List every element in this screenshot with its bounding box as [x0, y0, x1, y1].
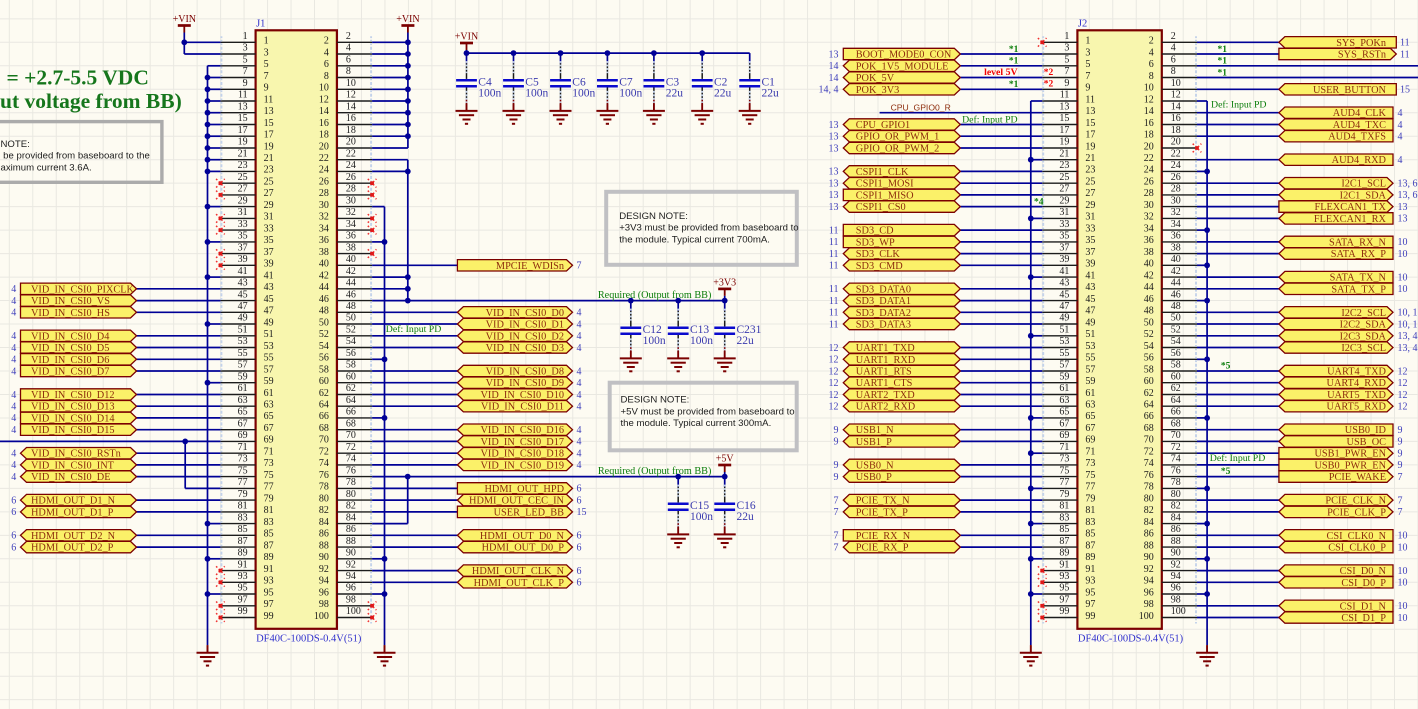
junction GND bus / J2 pin 90 — [1204, 556, 1210, 562]
svg-text:HDMI_OUT_D2_P: HDMI_OUT_D2_P — [31, 543, 114, 554]
J2 pin 33 — [1042, 219, 1095, 236]
J1 pin 48 — [319, 301, 372, 318]
J1 pin 84 — [319, 512, 372, 529]
J2 pin 39 — [1042, 254, 1095, 271]
svg-text:17: 17 — [238, 125, 248, 136]
junction +VIN bus / J1 pin 8 — [405, 75, 411, 81]
port CSPI1_CS0 (J2 pin 29) — [829, 201, 961, 213]
svg-text:7: 7 — [834, 495, 839, 506]
port UART4_RXD (J2 pin 60) — [1279, 377, 1408, 389]
J2 pin 80 — [1144, 489, 1197, 506]
svg-text:35: 35 — [1059, 231, 1069, 242]
J2 pin 16 — [1144, 113, 1197, 130]
svg-text:94: 94 — [319, 576, 329, 587]
J2 pin 99 — [1042, 606, 1095, 623]
svg-text:32: 32 — [319, 212, 329, 223]
port UART5_TXD (J2 pin 62) — [1279, 389, 1408, 401]
wire +3V3 bus to J1 pin 24 — [372, 170, 408, 172]
svg-text:CSI_D0_N: CSI_D0_N — [1340, 566, 1387, 577]
wire GND bus to J2 pin 83 — [1031, 523, 1042, 525]
svg-text:CSPI1_CS0: CSPI1_CS0 — [856, 202, 906, 213]
svg-text:SD3_DATA1: SD3_DATA1 — [856, 296, 911, 307]
svg-text:be provided from baseboard to: be provided from baseboard to the — [1, 151, 150, 162]
J2 pin 97 — [1042, 595, 1095, 612]
wire port SD3_DATA3 to J2 pin 49 — [960, 323, 1042, 325]
wire GND bus to J2 pin 46 — [1197, 300, 1207, 302]
wire J1 pin 58 to port VID_IN_CSI0_D8 — [372, 370, 457, 372]
svg-text:9: 9 — [1398, 449, 1403, 460]
svg-text:9: 9 — [1064, 78, 1069, 89]
port VID_IN_CSI0_D5 (J1 pin 53) — [11, 342, 136, 354]
svg-text:76: 76 — [346, 465, 356, 476]
J1 pin 66 — [319, 407, 372, 424]
wire GND bus to J2 pin 84 — [1197, 523, 1207, 525]
svg-text:VID_IN_CSI0_INT: VID_IN_CSI0_INT — [31, 460, 115, 471]
capacitor C6 100n — [550, 53, 595, 111]
wire J1 pin 48 to port VID_IN_CSI0_D0 — [372, 311, 457, 313]
svg-text:36: 36 — [1144, 235, 1154, 246]
svg-text:45: 45 — [238, 289, 248, 300]
svg-text:98: 98 — [319, 599, 329, 610]
junction +VIN rail / C4 — [464, 50, 470, 56]
svg-text:5: 5 — [243, 55, 248, 66]
svg-text:10, 11: 10, 11 — [1398, 308, 1418, 319]
no-connect X at J1 pin 38 — [368, 249, 377, 258]
svg-text:55: 55 — [264, 353, 274, 364]
svg-text:86: 86 — [346, 524, 356, 535]
svg-text:97: 97 — [264, 599, 274, 610]
svg-text:58: 58 — [319, 364, 329, 375]
svg-text:77: 77 — [238, 477, 248, 488]
svg-text:36: 36 — [1171, 231, 1181, 242]
svg-text:14: 14 — [829, 73, 839, 84]
svg-text:PCIE_TX_P: PCIE_TX_P — [856, 507, 908, 518]
J1 pin 88 — [319, 536, 372, 553]
svg-text:42: 42 — [319, 270, 329, 281]
port UART1_RXD (J2 pin 55) — [829, 354, 961, 366]
svg-text:72: 72 — [319, 447, 329, 458]
svg-text:98: 98 — [1144, 599, 1154, 610]
wire +5V branch to J1 pin 84 — [372, 523, 408, 525]
svg-text:83: 83 — [1085, 517, 1095, 528]
no-connect X at J1 pin 39 — [216, 261, 225, 270]
svg-text:6: 6 — [324, 59, 329, 70]
svg-text:UART2_RXD: UART2_RXD — [856, 402, 916, 413]
port SATA_TX_N (J2 pin 42) — [1279, 271, 1408, 283]
wire J1 pin 92 to port HDMI_OUT_CLK_N — [372, 570, 457, 572]
junction GND bus / J1 pin 17 — [205, 133, 211, 139]
svg-text:10: 10 — [1398, 578, 1408, 589]
J2 pin 76 — [1144, 465, 1197, 482]
wire port PCIE_RX_N to J2 pin 85 — [960, 534, 1042, 536]
svg-text:26: 26 — [1144, 177, 1154, 188]
junction GND bus / J1 pin 9 — [205, 86, 211, 92]
svg-text:71: 71 — [264, 447, 274, 458]
junction GND bus / J2 pin 66 — [1204, 415, 1210, 421]
svg-text:20: 20 — [346, 137, 356, 148]
svg-text:4: 4 — [577, 319, 582, 330]
svg-text:7: 7 — [1064, 66, 1069, 77]
J1 pin 14 — [319, 101, 372, 118]
J2 pin 85 — [1042, 524, 1095, 541]
J1 pin 63 — [220, 395, 273, 412]
capacitor C231 22u — [714, 301, 761, 359]
svg-text:95: 95 — [238, 583, 248, 594]
J1 pin 28 — [319, 184, 372, 201]
svg-text:GPIO_OR_PWM_1: GPIO_OR_PWM_1 — [856, 132, 940, 143]
J2 pin 41 — [1042, 266, 1095, 283]
wire +VIN bus to J1 pin 18 — [372, 135, 408, 137]
svg-text:50: 50 — [1171, 313, 1181, 324]
J2 pin 15 — [1042, 113, 1095, 130]
J2 pin 8 — [1149, 66, 1197, 83]
wire port USB0_P to J2 pin 75 — [960, 476, 1042, 478]
svg-text:UART5_TXD: UART5_TXD — [1327, 390, 1386, 401]
wire GND bus to J2 pin 71 — [1031, 452, 1042, 454]
svg-text:12: 12 — [1398, 366, 1408, 377]
svg-text:29: 29 — [264, 200, 274, 211]
port VID_IN_CSI0_D6 (J1 pin 55) — [11, 354, 136, 366]
svg-text:100: 100 — [346, 606, 361, 617]
svg-text:VID_IN_CSI0_D13: VID_IN_CSI0_D13 — [31, 402, 115, 413]
svg-text:6: 6 — [577, 495, 582, 506]
svg-text:31: 31 — [1085, 212, 1095, 223]
svg-text:UART4_TXD: UART4_TXD — [1327, 367, 1386, 378]
wire port VID_IN_CSI0_D6 to J1 pin 55 — [137, 358, 221, 360]
svg-text:13, 6: 13, 6 — [1398, 190, 1418, 201]
svg-text:VID_IN_CSI0_D16: VID_IN_CSI0_D16 — [480, 425, 564, 436]
svg-text:4: 4 — [577, 366, 582, 377]
wire J2 pin 54 to port I2C3_SCL — [1197, 347, 1279, 349]
port VID_IN_CSI0_INT (J1 pin 73) — [11, 459, 136, 471]
J2 pin 52 — [1144, 325, 1197, 342]
svg-text:J1: J1 — [256, 19, 265, 30]
J1 pin 100 — [314, 606, 372, 623]
wire GND bus to J1 pin 11 — [208, 100, 221, 102]
wire GND bus to J1 pin 56 — [372, 358, 384, 360]
svg-text:4: 4 — [577, 449, 582, 460]
svg-text:12: 12 — [829, 378, 839, 389]
svg-text:VID_IN_CSI0_D2: VID_IN_CSI0_D2 — [486, 331, 564, 342]
svg-text:100: 100 — [1171, 606, 1186, 617]
svg-text:41: 41 — [1085, 270, 1095, 281]
svg-text:78: 78 — [1144, 482, 1154, 493]
svg-text:64: 64 — [1144, 400, 1154, 411]
port VID_IN_CSI0_D13 (J1 pin 63) — [11, 401, 136, 413]
svg-text:2: 2 — [324, 36, 329, 47]
svg-text:1: 1 — [1064, 31, 1069, 42]
wire port VID_IN_CSI0_D13 to J1 pin 63 — [137, 405, 221, 407]
junction GND bus / J2 pin 56 — [1204, 356, 1210, 362]
svg-text:50: 50 — [1144, 317, 1154, 328]
J2 pin 79 — [1042, 489, 1095, 506]
svg-text:36: 36 — [346, 231, 356, 242]
junction GND bus / J1 pin 23 — [205, 169, 211, 175]
svg-text:DF40C-100DS-0.4V(51): DF40C-100DS-0.4V(51) — [1078, 634, 1184, 645]
svg-text:28: 28 — [319, 188, 329, 199]
svg-text:VID_IN_CSI0_D18: VID_IN_CSI0_D18 — [480, 449, 564, 460]
svg-text:83: 83 — [264, 517, 274, 528]
svg-text:52: 52 — [319, 329, 329, 340]
port SD3_WP (J2 pin 35) — [829, 236, 960, 248]
svg-text:4: 4 — [11, 331, 16, 342]
wire J2 pin 68 to port USB0_ID — [1197, 429, 1279, 431]
svg-text:65: 65 — [264, 411, 274, 422]
svg-text:USB0_ID: USB0_ID — [1345, 425, 1387, 436]
ground under C3 — [643, 103, 665, 123]
svg-text:70: 70 — [319, 435, 329, 446]
svg-text:SD3_CLK: SD3_CLK — [856, 249, 901, 260]
svg-text:10: 10 — [1398, 237, 1408, 248]
junction GND bus / J2 pin 46 — [1204, 298, 1210, 304]
svg-text:18: 18 — [319, 130, 329, 141]
svg-text:3: 3 — [1064, 43, 1069, 54]
port USER_BUTTON (J2 pin 10) — [1279, 84, 1410, 96]
J1 pin 55 — [220, 348, 273, 365]
J2 pin 3 — [1042, 43, 1090, 60]
wire +VIN to J1 pin 3 — [184, 53, 220, 55]
wire GND bus to J2 pin 11 — [1031, 100, 1042, 102]
svg-text:35: 35 — [238, 231, 248, 242]
J2 pin 88 — [1144, 536, 1197, 553]
svg-text:PCIE_CLK_N: PCIE_CLK_N — [1325, 496, 1386, 507]
svg-text:32: 32 — [1171, 207, 1181, 218]
J1 pin 90 — [319, 548, 372, 565]
port SD3_DATA0 (J2 pin 43) — [829, 283, 960, 295]
svg-text:11: 11 — [829, 319, 839, 330]
J2 pin 22 — [1144, 148, 1197, 165]
wire J2 pin 76 to port PCIE_WAKE — [1197, 476, 1279, 478]
svg-text:HDMI_OUT_HPD: HDMI_OUT_HPD — [484, 484, 564, 495]
port POK_1V5_MODULE (J2 pin 5) — [829, 60, 961, 72]
svg-text:6: 6 — [11, 507, 16, 518]
svg-text:67: 67 — [264, 423, 274, 434]
ground under C16 — [714, 527, 736, 547]
J1 pin 36 — [319, 231, 372, 248]
svg-text:VID_IN_CSI0_D1: VID_IN_CSI0_D1 — [486, 320, 564, 331]
junction +VIN bus / J1 pin 2 — [405, 39, 411, 45]
J1 pin 16 — [319, 113, 372, 130]
wire +VIN bus to J1 pin 16 — [372, 124, 408, 126]
svg-text:11: 11 — [829, 225, 839, 236]
svg-text:4: 4 — [577, 378, 582, 389]
svg-text:70: 70 — [1144, 435, 1154, 446]
wire port CSPI1_MISO to J2 pin 27 — [960, 194, 1042, 196]
wire +VIN bus to J1 pin 12 — [372, 100, 408, 102]
svg-text:6: 6 — [346, 55, 351, 66]
wire +VIN bus to J1 pin 14 — [372, 112, 408, 114]
svg-text:AUD4_TXFS: AUD4_TXFS — [1328, 132, 1386, 143]
svg-text:6: 6 — [11, 531, 16, 542]
wire J2 pin 8 to right edge — [1197, 77, 1418, 79]
port VID_IN_CSI0_D15 (J1 pin 67) — [11, 424, 136, 436]
svg-text:81: 81 — [264, 505, 274, 516]
J2 pin 51 — [1042, 325, 1095, 342]
ground under C4 — [456, 103, 478, 123]
J1 pin 82 — [319, 501, 372, 518]
port HDMI_OUT_CLK_P (J1 pin 94) — [457, 577, 581, 589]
J2 pin 57 — [1042, 360, 1095, 377]
wire GND bus to J1 pin 7 — [208, 77, 221, 79]
J2 pin 98 — [1144, 595, 1197, 612]
svg-text:USER_LED_BB: USER_LED_BB — [494, 507, 565, 518]
no-connect X at J1 pin 91 — [216, 566, 225, 575]
svg-text:52: 52 — [1144, 329, 1154, 340]
svg-text:6: 6 — [11, 495, 16, 506]
svg-text:POK_3V3: POK_3V3 — [856, 85, 899, 96]
svg-text:60: 60 — [319, 376, 329, 387]
svg-text:9: 9 — [243, 78, 248, 89]
wire vertical +5V branch — [407, 477, 409, 524]
J2 pin 49 — [1042, 313, 1095, 330]
svg-text:94: 94 — [1144, 576, 1154, 587]
svg-text:4: 4 — [324, 47, 329, 58]
svg-text:9: 9 — [264, 83, 269, 94]
J1 pin 98 — [319, 595, 372, 612]
J2 pin 12 — [1144, 90, 1197, 107]
svg-text:92: 92 — [319, 564, 329, 575]
svg-text:40: 40 — [319, 259, 329, 270]
svg-text:84: 84 — [1171, 512, 1181, 523]
svg-text:96: 96 — [1171, 583, 1181, 594]
port CSPI1_CLK (J2 pin 23) — [829, 166, 961, 178]
port CSI_CLK0_N (J2 pin 86) — [1279, 530, 1408, 542]
svg-text:28: 28 — [1144, 188, 1154, 199]
junction GND bus / J2 pin 65 — [1028, 415, 1034, 421]
svg-text:62: 62 — [319, 388, 329, 399]
junction +3V3 bus / J1 pin 24 — [405, 169, 411, 175]
wire GND bus to J2 pin 12 — [1197, 100, 1207, 102]
port PCIE_CLK_P (J2 pin 82) — [1279, 506, 1403, 518]
svg-text:63: 63 — [264, 400, 274, 411]
J1 pin 44 — [319, 278, 372, 295]
svg-text:13, 4: 13, 4 — [1398, 331, 1418, 342]
svg-text:82: 82 — [1144, 505, 1154, 516]
svg-text:USB1_PWR_EN: USB1_PWR_EN — [1314, 449, 1386, 460]
svg-text:23: 23 — [1059, 160, 1069, 171]
svg-text:4: 4 — [577, 425, 582, 436]
svg-text:10: 10 — [319, 83, 329, 94]
svg-text:59: 59 — [1085, 376, 1095, 387]
svg-text:SATA_RX_N: SATA_RX_N — [1329, 237, 1387, 248]
wire J1 pin 80 to port HDMI_OUT_CEC_IN — [372, 499, 457, 501]
J1 pin 95 — [220, 583, 273, 600]
wire port SD3_WP to J2 pin 35 — [960, 241, 1042, 243]
svg-text:19: 19 — [264, 141, 274, 152]
svg-text:VID_IN_CSI0_D12: VID_IN_CSI0_D12 — [31, 390, 115, 401]
svg-text:33: 33 — [1059, 219, 1069, 230]
junction GND bus / J2 pin 41 — [1028, 274, 1034, 280]
port VID_IN_CSI0_HS (J1 pin 47) — [11, 307, 136, 319]
J2 pin 5 — [1042, 55, 1090, 72]
junction GND bus / J1 pin 59 — [205, 380, 211, 386]
svg-text:36: 36 — [319, 235, 329, 246]
svg-text:4: 4 — [11, 308, 16, 319]
svg-text:74: 74 — [1171, 454, 1181, 465]
port POK_3V3 (J2 pin 9) — [819, 84, 961, 96]
J2 pin 64 — [1144, 395, 1197, 412]
wire J1 pin 94 to port HDMI_OUT_CLK_P — [372, 581, 457, 583]
wire +VIN bus to J1 pin 20 — [372, 147, 408, 149]
port PCIE_CLK_N (J2 pin 80) — [1279, 494, 1403, 506]
wire port VID_IN_CSI0_INT to J1 pin 73 — [137, 464, 221, 466]
svg-text:82: 82 — [1171, 501, 1181, 512]
svg-text:7: 7 — [834, 507, 839, 518]
svg-text:7: 7 — [264, 71, 269, 82]
svg-text:38: 38 — [346, 242, 356, 253]
wire GND bus to J2 pin 90 — [1197, 558, 1207, 560]
wire GND bus to J2 pin 31 — [1031, 217, 1042, 219]
svg-text:90: 90 — [319, 552, 329, 563]
J1 pin 40 — [319, 254, 372, 271]
svg-text:USB1_N: USB1_N — [856, 425, 894, 436]
svg-text:85: 85 — [238, 524, 248, 535]
junction GND bus / J2 pin 31 — [1028, 216, 1034, 222]
wire J2 pin 42 to port SATA_TX_N — [1197, 276, 1279, 278]
capacitor C3 22u — [644, 53, 684, 111]
svg-text:10: 10 — [1398, 613, 1408, 624]
J1 pin 65 — [220, 407, 273, 424]
port SD3_DATA3 (J2 pin 49) — [829, 318, 960, 330]
J1 pin 17 — [220, 125, 273, 142]
svg-text:97: 97 — [1085, 599, 1095, 610]
svg-text:28: 28 — [346, 184, 356, 195]
junction +VIN bus / J1 pin 14 — [405, 110, 411, 116]
wire port PCIE_RX_P to J2 pin 87 — [960, 546, 1042, 548]
svg-text:VID_IN_CSI0_D4: VID_IN_CSI0_D4 — [31, 331, 109, 342]
svg-text:37: 37 — [1085, 247, 1095, 258]
svg-text:4: 4 — [1171, 43, 1176, 54]
svg-text:4: 4 — [577, 437, 582, 448]
svg-text:39: 39 — [264, 259, 274, 270]
wire J2 pin 32 to port FLEXCAN1_RX — [1197, 217, 1279, 219]
J2 pin 21 — [1042, 148, 1095, 165]
svg-text:13: 13 — [829, 202, 839, 213]
connector J2 body — [1077, 30, 1161, 629]
svg-text:47: 47 — [1059, 301, 1069, 312]
J2 pin 40 — [1144, 254, 1197, 271]
svg-text:6: 6 — [577, 578, 582, 589]
svg-text:HDMI_OUT_D1_N: HDMI_OUT_D1_N — [31, 496, 116, 507]
svg-text:52: 52 — [346, 325, 356, 336]
svg-text:VID_IN_CSI0_D17: VID_IN_CSI0_D17 — [480, 437, 564, 448]
svg-text:J2: J2 — [1078, 19, 1087, 30]
svg-text:63: 63 — [1085, 400, 1095, 411]
svg-text:13, 6: 13, 6 — [1398, 179, 1418, 190]
svg-text:SD3_DATA3: SD3_DATA3 — [856, 320, 911, 331]
J2 pin 67 — [1042, 418, 1095, 435]
svg-text:46: 46 — [346, 289, 356, 300]
wire +3V3 bus to J1 pin 42 — [372, 276, 408, 278]
svg-text:SD3_DATA2: SD3_DATA2 — [856, 308, 911, 319]
J2 pin 93 — [1042, 571, 1095, 588]
wire port UART1_RTS to J2 pin 57 — [960, 370, 1042, 372]
svg-text:21: 21 — [1059, 148, 1069, 159]
svg-text:VID_IN_CSI0_D14: VID_IN_CSI0_D14 — [31, 413, 115, 424]
wire port SD3_CLK to J2 pin 37 — [960, 253, 1042, 255]
J1 pin 72 — [319, 442, 372, 459]
wire port VID_IN_CSI0_RSTn to J1 pin 71 — [137, 452, 221, 454]
svg-text:48: 48 — [1144, 306, 1154, 317]
wire J2 pin 88 to port CSI_CLK0_P — [1197, 546, 1279, 548]
svg-text:51: 51 — [1085, 329, 1095, 340]
J2 pin 50 — [1144, 313, 1197, 330]
svg-text:54: 54 — [1144, 341, 1154, 352]
J1 pin 33 — [220, 219, 273, 236]
wire +VIN bus to J1 pin 2 — [372, 41, 408, 43]
port PCIE_TX_P (J2 pin 81) — [834, 506, 961, 518]
wire GND bus to J1 pin 83 — [208, 523, 221, 525]
